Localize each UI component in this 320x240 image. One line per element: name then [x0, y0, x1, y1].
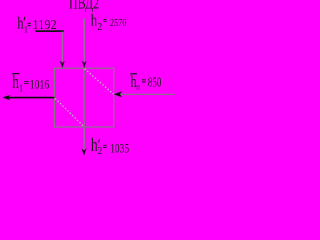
svg-text:h: h [91, 134, 98, 155]
arrowhead drain-out (down) [82, 148, 87, 155]
arrowhead drain-in (down) [60, 61, 65, 68]
label h'2 = 1035 [91, 134, 130, 157]
svg-text:2570: 2570 [110, 17, 127, 29]
heater middle divider [83, 68, 85, 127]
svg-text:1: 1 [19, 84, 24, 94]
dotted process line steam (top-middle to right-middle) [85, 69, 114, 94]
wire: drain-in vertical [61, 32, 63, 62]
svg-text:1016: 1016 [30, 78, 50, 92]
svg-text:п: п [136, 82, 140, 92]
svg-text:850: 850 [148, 75, 162, 90]
heater body (box) [54, 68, 113, 127]
arrowhead feedwater-out (left) [3, 95, 11, 101]
svg-text:1192: 1192 [33, 16, 57, 32]
dotted process line drain (left-middle to bottom-middle) [55, 99, 84, 127]
arrowhead steam-in (down) [82, 61, 87, 68]
svg-text:2: 2 [97, 22, 102, 33]
svg-text:1: 1 [24, 25, 29, 35]
svg-text:2: 2 [98, 145, 103, 157]
label h1bar = 1016 [12, 71, 49, 94]
wire: steam-in vertical [83, 18, 85, 61]
wire: feedwater-in horizontal (right) [115, 93, 175, 95]
wire: drain-out vertical (bottom) [83, 127, 85, 149]
arrowhead feedwater-in (left) [114, 91, 122, 97]
label h2 = 2570 [91, 12, 127, 33]
wire: feedwater-out horizontal (left) [4, 97, 55, 99]
svg-text:1035: 1035 [110, 142, 129, 156]
wire: label h'1 underline [35, 30, 64, 32]
label h'1 = 1192 [17, 15, 56, 35]
label hp_bar = 850 [130, 73, 161, 91]
